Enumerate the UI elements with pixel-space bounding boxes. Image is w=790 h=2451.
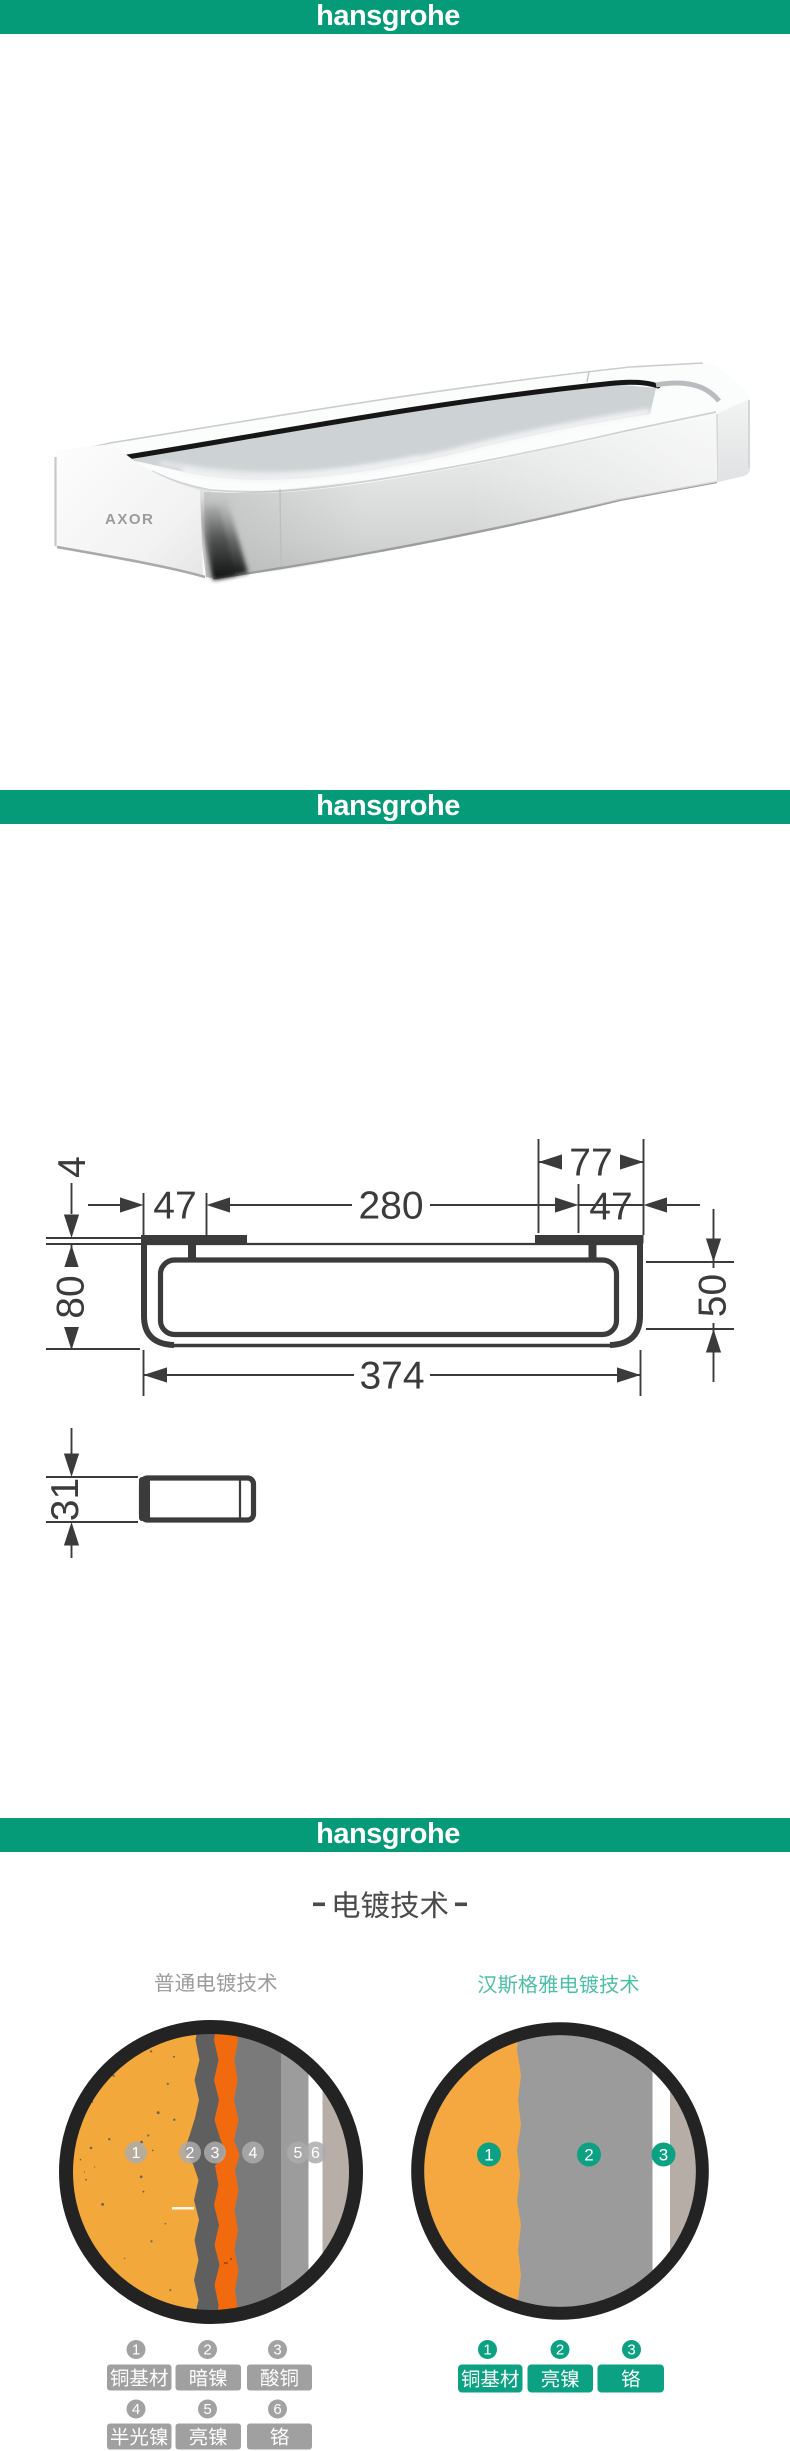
front wall <box>153 414 718 580</box>
svg-text:AXOR: AXOR <box>105 511 154 528</box>
plating-technology title <box>100 1880 700 2005</box>
opening dark line <box>111 382 658 459</box>
hidden CJK glyph definitions <box>0 0 1 1</box>
svg-text:4: 4 <box>51 1156 94 1178</box>
right circle: hansgrohe plating <box>415 2023 710 2322</box>
svg-text:1: 1 <box>484 2146 493 2165</box>
product photo: chrome towel rail <box>35 350 780 625</box>
svg-text:1: 1 <box>132 2342 140 2359</box>
silhouette top edge line <box>55 363 703 456</box>
svg-text:3: 3 <box>659 2146 668 2165</box>
svg-text:3: 3 <box>627 2342 635 2359</box>
technical dimension drawing <box>40 1125 760 1570</box>
svg-text:1: 1 <box>132 2145 141 2162</box>
svg-text:50: 50 <box>692 1274 735 1317</box>
left block face <box>54 444 203 575</box>
svg-text:47: 47 <box>589 1186 632 1229</box>
inner bar <box>161 1260 617 1335</box>
svg-text:47: 47 <box>153 1185 196 1228</box>
body top edge <box>141 1243 643 1245</box>
svg-text:2: 2 <box>203 2342 211 2359</box>
svg-text:4: 4 <box>249 2145 258 2162</box>
svg-text:5: 5 <box>294 2145 303 2162</box>
svg-text:31: 31 <box>44 1478 87 1521</box>
svg-text:2: 2 <box>556 2342 564 2359</box>
green header band 1 <box>0 0 790 34</box>
svg-text:77: 77 <box>569 1142 612 1185</box>
svg-text:4: 4 <box>132 2401 140 2418</box>
right cap <box>717 414 718 481</box>
plating comparison circles <box>40 2000 760 2345</box>
svg-text:1: 1 <box>483 2342 491 2359</box>
posts <box>188 1243 196 1260</box>
legend <box>100 2335 680 2451</box>
inner wall of far rail (gray band) <box>116 384 656 480</box>
svg-text:5: 5 <box>203 2401 211 2418</box>
bar silhouette base <box>54 363 750 580</box>
svg-text:6: 6 <box>273 2401 281 2418</box>
svg-text:3: 3 <box>211 2145 220 2162</box>
left circle: ordinary plating <box>60 2018 370 2332</box>
bottom edge line <box>213 482 717 579</box>
svg-text:6: 6 <box>311 2145 320 2162</box>
svg-text:3: 3 <box>273 2342 281 2359</box>
svg-text:2: 2 <box>186 2145 195 2162</box>
green band 2 <box>0 790 790 824</box>
near rim lip line <box>152 412 716 492</box>
svg-text:2: 2 <box>584 2146 593 2165</box>
svg-text:80: 80 <box>50 1275 93 1318</box>
front view: mounting plates <box>141 1235 247 1244</box>
corner dark vein <box>196 492 248 580</box>
svg-text:280: 280 <box>358 1185 423 1228</box>
rim seam <box>587 371 589 382</box>
green band 3 <box>0 1818 790 1852</box>
svg-text:374: 374 <box>359 1355 424 1398</box>
body sides/bottom <box>144 1244 174 1345</box>
side view <box>142 1478 254 1520</box>
